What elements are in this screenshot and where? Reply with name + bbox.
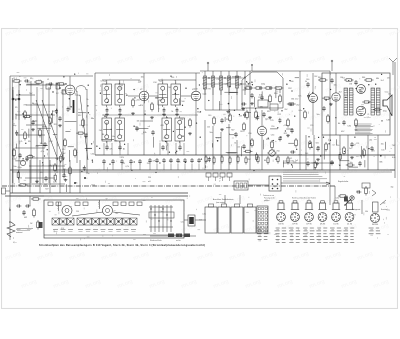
svg-text:50u: 50u [317,114,320,116]
svg-text:0,5u: 0,5u [385,91,389,93]
svg-text:100p: 100p [33,120,37,122]
svg-text:100p: 100p [12,158,16,160]
svg-text:10n: 10n [155,98,158,100]
svg-text:68k: 68k [291,99,294,101]
svg-text:47k: 47k [163,137,166,139]
svg-text:DF 96: DF 96 [306,223,311,225]
svg-text:1k: 1k [86,99,88,101]
svg-text:1n5: 1n5 [29,154,32,156]
svg-text:0,5u: 0,5u [367,117,371,119]
svg-text:2n2: 2n2 [295,99,298,101]
svg-text:V2: V2 [140,89,142,91]
svg-text:2n2: 2n2 [169,160,172,162]
svg-text:R40: R40 [318,77,321,79]
svg-text:1k: 1k [50,126,52,128]
svg-text:R9: R9 [28,141,30,143]
svg-text:0,25: 0,25 [203,93,207,95]
svg-text:C34: C34 [119,85,122,87]
svg-text:0,5u: 0,5u [351,197,354,199]
svg-text:0,1u: 0,1u [299,110,303,112]
svg-text:125: 125 [237,147,240,149]
svg-text:47k: 47k [109,149,112,151]
svg-text:A1: A1 [123,147,125,150]
svg-text:A1: A1 [106,122,108,125]
svg-text:220p: 220p [227,79,231,81]
svg-text:R12: R12 [267,111,270,113]
svg-text:C45: C45 [240,131,243,133]
svg-text:1M: 1M [349,84,352,86]
svg-text:50u: 50u [350,162,353,164]
svg-text:2k2: 2k2 [199,219,202,221]
svg-text:6,8k: 6,8k [143,132,147,134]
svg-text:6,8k: 6,8k [392,157,396,159]
svg-text:2n2: 2n2 [159,100,162,102]
svg-text:R12: R12 [40,172,43,174]
svg-text:Tr1: Tr1 [103,80,106,83]
svg-text:L2: L2 [47,79,49,81]
svg-text:R12: R12 [92,185,95,187]
svg-text:6,8k: 6,8k [180,119,184,121]
svg-text:R12: R12 [278,114,281,116]
svg-text:Skalenseil links: Skalenseil links [150,240,162,242]
svg-text:500: 500 [356,191,359,193]
svg-text:C50: C50 [284,125,287,127]
svg-text:100p: 100p [383,110,387,112]
svg-text:n4: n4 [100,81,102,83]
svg-text:R12: R12 [284,133,287,135]
svg-text:1k: 1k [238,85,240,87]
svg-text:2k2: 2k2 [115,213,118,215]
svg-text:2n2: 2n2 [349,148,352,150]
svg-text:220p: 220p [261,84,265,86]
svg-text:C1: C1 [13,78,15,80]
svg-text:125: 125 [387,77,390,79]
svg-text:DL 96: DL 96 [334,223,339,225]
svg-text:5k: 5k [305,81,307,83]
svg-text:10k: 10k [359,90,362,92]
svg-text:R12: R12 [288,88,291,90]
svg-text:15k: 15k [381,143,384,145]
svg-text:LW: LW [30,223,33,225]
svg-text:2k2: 2k2 [284,109,287,111]
svg-text:Anschluss Sonderbatterie: Anschluss Sonderbatterie [213,198,233,201]
svg-text:0,1u: 0,1u [387,210,390,212]
svg-text:0,5u: 0,5u [181,222,185,224]
svg-text:500: 500 [181,101,184,103]
svg-text:50u: 50u [112,136,115,138]
svg-text:4,7k: 4,7k [41,151,45,153]
svg-text:2k2: 2k2 [50,141,53,143]
svg-text:n4: n4 [343,78,345,80]
svg-text:DF 96: DF 96 [292,223,297,225]
svg-text:Stromlaufplan des Reiseempfaen: Stromlaufplan des Reiseempfaengers B 110… [39,243,205,247]
svg-text:100p: 100p [242,89,246,91]
svg-text:3,2: 3,2 [75,94,78,96]
svg-text:C34: C34 [91,154,94,156]
svg-text:MW: MW [24,217,27,219]
svg-text:10n: 10n [86,173,89,175]
svg-text:R50: R50 [336,145,339,147]
svg-text:500: 500 [290,81,293,83]
svg-text:3,2: 3,2 [56,93,59,95]
svg-text:30p: 30p [383,203,386,205]
svg-text:R1: R1 [30,78,32,80]
svg-text:DK 96: DK 96 [320,223,325,225]
svg-text:500: 500 [305,153,308,155]
svg-text:2k2: 2k2 [339,91,342,93]
svg-text:C70: C70 [310,125,313,127]
svg-text:220p: 220p [48,165,52,167]
svg-text:6,8k: 6,8k [225,83,229,85]
svg-text:n4: n4 [332,144,334,146]
svg-text:R12: R12 [54,124,57,126]
svg-text:6,8k: 6,8k [386,119,390,121]
svg-text:C74: C74 [356,143,359,145]
svg-text:250: 250 [276,150,279,152]
svg-text:A1: A1 [264,159,266,162]
svg-text:30p: 30p [13,125,16,127]
svg-text:R5: R5 [15,107,17,109]
svg-text:68k: 68k [380,162,383,164]
svg-text:500: 500 [137,99,140,101]
svg-text:68k: 68k [310,100,313,102]
svg-text:Tr2: Tr2 [159,80,162,83]
svg-text:50u: 50u [317,146,320,148]
svg-text:2k2: 2k2 [206,160,209,162]
svg-text:1k: 1k [13,184,15,186]
svg-text:3,2: 3,2 [290,158,293,160]
svg-text:DL 96: DL 96 [347,223,352,225]
svg-text:4,7k: 4,7k [125,166,128,168]
svg-text:C34: C34 [227,86,230,88]
svg-text:C34: C34 [114,141,117,143]
svg-text:10k: 10k [138,81,141,83]
svg-text:10k: 10k [141,77,144,79]
svg-text:10n: 10n [51,186,54,188]
svg-text:10n: 10n [334,85,337,87]
svg-text:10k: 10k [77,95,80,97]
svg-text:250: 250 [248,133,251,135]
svg-text:2k2: 2k2 [44,184,47,186]
svg-text:C34: C34 [217,79,220,81]
svg-text:1n5: 1n5 [161,211,164,213]
svg-text:50u: 50u [13,166,16,168]
svg-text:n4: n4 [148,126,150,128]
svg-text:1k: 1k [130,219,132,221]
svg-text:250: 250 [171,77,174,79]
svg-text:2k2: 2k2 [296,105,299,107]
svg-text:5k: 5k [171,111,173,113]
svg-text:A1: A1 [102,133,104,136]
svg-text:6,8k: 6,8k [348,126,352,128]
svg-text:R33: R33 [266,139,269,141]
svg-text:2k2: 2k2 [99,130,102,132]
svg-text:250: 250 [19,178,22,180]
svg-text:125: 125 [98,224,101,226]
svg-text:C34: C34 [271,135,274,137]
svg-text:2k2: 2k2 [369,139,372,141]
svg-text:68k: 68k [355,130,358,132]
svg-text:R12: R12 [78,115,81,117]
svg-text:68k: 68k [376,78,379,80]
svg-text:C34: C34 [336,198,339,200]
svg-text:R21: R21 [246,85,249,87]
svg-text:2n2: 2n2 [35,146,38,148]
svg-text:DK 96: DK 96 [278,223,283,225]
svg-text:C12: C12 [62,149,65,151]
svg-text:68k: 68k [75,183,78,185]
svg-text:C31: C31 [258,97,261,99]
svg-text:10k: 10k [137,120,140,122]
svg-text:2n2: 2n2 [381,80,384,82]
svg-text:4,7k: 4,7k [19,141,23,143]
svg-text:R30: R30 [226,119,229,121]
svg-text:2k2: 2k2 [314,76,317,78]
svg-text:125: 125 [207,126,210,128]
svg-text:R44: R44 [362,77,365,79]
svg-text:n4: n4 [123,163,125,165]
svg-text:30p: 30p [197,112,200,114]
svg-text:50u: 50u [210,132,213,134]
svg-text:68k: 68k [365,211,368,213]
svg-text:A1: A1 [338,122,340,125]
svg-text:3,2: 3,2 [38,80,41,82]
svg-text:DM 300: DM 300 [372,224,378,226]
svg-text:5k: 5k [339,165,341,167]
svg-text:(von unten): (von unten) [216,201,225,204]
svg-text:rechts: rechts [176,239,181,242]
svg-text:5k: 5k [234,143,236,145]
svg-text:47k: 47k [178,162,181,164]
svg-text:C34: C34 [153,82,156,84]
svg-text:C34: C34 [298,155,301,157]
svg-text:0,1u: 0,1u [13,242,16,244]
svg-text:68k: 68k [260,107,263,109]
svg-text:10n: 10n [91,118,94,120]
svg-text:47k: 47k [153,160,156,162]
svg-text:10n: 10n [298,95,301,97]
svg-text:1n5: 1n5 [388,93,391,95]
svg-text:0,1u: 0,1u [119,87,123,89]
svg-text:antenne: antenne [16,231,23,234]
svg-text:220p: 220p [147,163,151,165]
svg-text:250: 250 [148,177,151,179]
svg-text:250: 250 [271,126,274,128]
svg-text:1n5: 1n5 [295,160,298,162]
svg-text:4,7k: 4,7k [61,228,64,230]
svg-text:0,5u: 0,5u [202,213,206,215]
svg-text:125: 125 [270,120,273,122]
svg-text:4,7k: 4,7k [247,83,251,85]
svg-text:30p: 30p [391,186,394,188]
svg-text:Regelschalter: Regelschalter [338,180,349,183]
svg-text:C40: C40 [208,115,211,117]
svg-text:500: 500 [316,142,319,144]
svg-text:10n: 10n [381,150,384,152]
svg-text:68k: 68k [55,158,58,160]
svg-text:220p: 220p [18,167,22,169]
svg-text:0,25: 0,25 [33,104,37,106]
svg-text:250: 250 [76,211,79,213]
svg-text:50u: 50u [265,118,268,120]
